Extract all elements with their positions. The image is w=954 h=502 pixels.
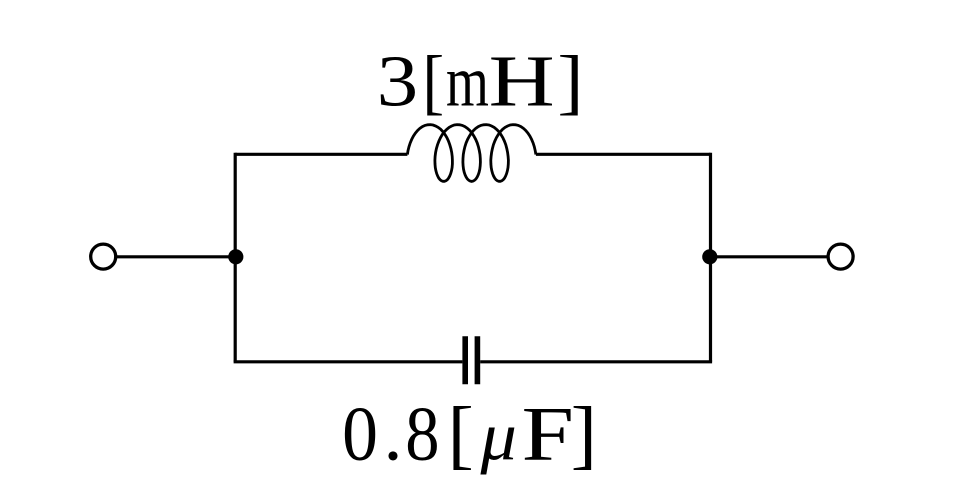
node left junction dot [228, 249, 243, 264]
label capacitor value 0.8[uF] [342, 391, 597, 477]
wire left vertical [234, 153, 237, 362]
wire right terminal lead [711, 255, 829, 258]
terminal right open circle [828, 244, 853, 269]
terminal left open circle [91, 244, 116, 269]
capacitor C1 left plate [462, 336, 468, 384]
wire top-left segment [235, 153, 407, 156]
node right junction dot [702, 249, 717, 264]
label inductor value 3[mH] [377, 41, 584, 122]
svg-text:0.8[μF]: 0.8[μF] [342, 391, 597, 477]
wire right vertical [709, 153, 712, 362]
svg-text:3[mH]: 3[mH] [377, 41, 584, 122]
wire top-right segment [536, 153, 711, 156]
capacitor C1 right plate [475, 336, 481, 384]
wire bottom-right segment [480, 360, 712, 363]
wire left terminal lead [117, 255, 236, 258]
inductor L1 coil (3 mH) [407, 125, 536, 182]
wire bottom-left segment [234, 360, 463, 363]
